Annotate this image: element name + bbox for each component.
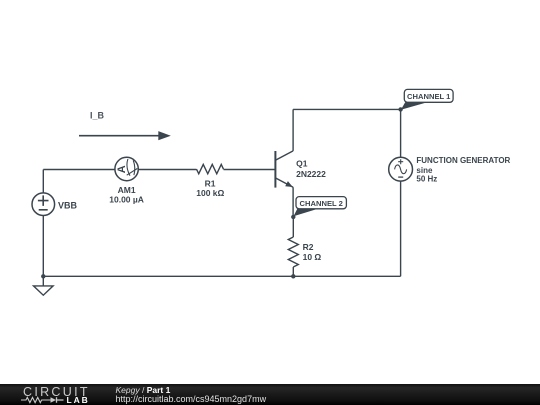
ground bbox=[34, 276, 54, 295]
wire emitter down to channel2 node bbox=[292, 187, 294, 217]
footer url text bbox=[116, 395, 267, 404]
CircuitLab logo bbox=[23, 386, 90, 399]
svg-text:FUNCTION GENERATOR: FUNCTION GENERATOR bbox=[416, 156, 510, 165]
svg-text:CHANNEL 1: CHANNEL 1 bbox=[407, 92, 451, 101]
transistor Q1 bbox=[275, 151, 293, 188]
svg-text:I_B: I_B bbox=[90, 110, 105, 120]
wire VBB top to top rail bbox=[42, 170, 44, 194]
voltage source VBB bbox=[32, 193, 55, 216]
wire function generator top bbox=[400, 109, 402, 157]
resistor R1 bbox=[197, 164, 224, 173]
wire collector up to top rail bbox=[292, 109, 294, 150]
svg-text:10.00 µA: 10.00 µA bbox=[109, 195, 144, 205]
svg-text:100 kΩ: 100 kΩ bbox=[196, 188, 224, 198]
wire VBB bottom bbox=[42, 215, 44, 276]
wire bottom rail bbox=[43, 275, 400, 277]
resistor R2 bbox=[288, 237, 298, 267]
footer title text bbox=[116, 386, 171, 395]
ammeter AM1 bbox=[115, 157, 138, 180]
svg-text:R2: R2 bbox=[303, 242, 314, 252]
wire function generator bottom bbox=[400, 181, 402, 276]
wire top rail left segment bbox=[43, 169, 115, 171]
svg-text:10 Ω: 10 Ω bbox=[303, 252, 322, 262]
footer bar bbox=[0, 384, 540, 405]
svg-text:AM1: AM1 bbox=[118, 185, 136, 195]
node CHANNEL 2 bbox=[291, 215, 295, 219]
wire channel2 node to R2 bbox=[292, 217, 294, 237]
svg-text:VBB: VBB bbox=[58, 200, 78, 210]
label CHANNEL 1 bbox=[401, 89, 453, 109]
function generator V1 bbox=[389, 157, 413, 181]
node CHANNEL 1 bbox=[398, 107, 402, 111]
wire top rail right segment bbox=[293, 108, 401, 110]
annotation arrow I_B bbox=[79, 135, 159, 137]
svg-text:2N2222: 2N2222 bbox=[296, 169, 326, 179]
svg-text:Q1: Q1 bbox=[296, 158, 308, 168]
svg-text:A: A bbox=[116, 165, 128, 173]
wire R1 to base bbox=[224, 169, 275, 171]
node R2 bottom junction bbox=[291, 274, 295, 278]
node ground junction bbox=[41, 274, 45, 278]
label CHANNEL 2 bbox=[294, 197, 347, 217]
svg-text:R1: R1 bbox=[205, 178, 216, 188]
svg-text:50 Hz: 50 Hz bbox=[416, 174, 437, 183]
wire ammeter to R1 bbox=[138, 169, 196, 171]
svg-text:CHANNEL 2: CHANNEL 2 bbox=[300, 199, 343, 208]
wire R2 bottom bbox=[292, 267, 294, 276]
